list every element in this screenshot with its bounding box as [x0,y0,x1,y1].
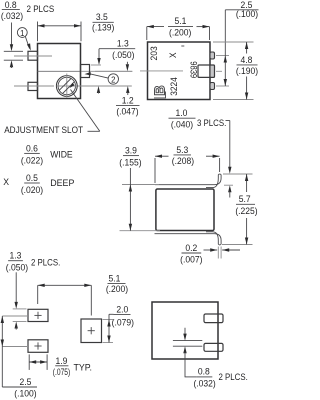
svg-text:5.7: 5.7 [239,194,251,205]
svg-text:(.020): (.020) [21,185,43,196]
svg-text:2 PLCS.: 2 PLCS. [219,372,248,383]
svg-text:(.047): (.047) [116,106,138,117]
svg-text:0.8: 0.8 [198,367,210,378]
svg-text:3.5: 3.5 [96,12,108,23]
svg-text:DEEP: DEEP [50,178,74,189]
svg-text:(.200): (.200) [169,27,191,38]
svg-text:9839: 9839 [188,61,198,78]
svg-text:X: X [168,52,178,58]
svg-text:5.1: 5.1 [175,16,187,27]
svg-text:(.075): (.075) [53,367,71,378]
svg-text:(.050): (.050) [6,262,28,273]
svg-text:5.3: 5.3 [176,145,188,156]
svg-text:(.155): (.155) [119,157,141,168]
svg-text:TYP.: TYP. [74,363,93,374]
svg-text:0.5: 0.5 [26,173,38,184]
svg-text:1.3: 1.3 [10,251,22,262]
svg-text:1: 1 [20,28,25,38]
svg-text:(.100): (.100) [236,9,258,20]
svg-text:(.050): (.050) [112,50,134,61]
svg-text:(.208): (.208) [172,156,194,167]
svg-text:WIDE: WIDE [50,149,72,160]
svg-text:(.007): (.007) [180,254,202,265]
svg-text:(.225): (.225) [235,206,257,217]
svg-text:ADJUSTMENT SLOT: ADJUSTMENT SLOT [4,125,83,136]
svg-text:1.0: 1.0 [176,108,188,119]
svg-text:1.3: 1.3 [117,39,129,50]
svg-text:(.022): (.022) [21,155,43,166]
svg-text:2: 2 [111,75,116,85]
svg-text:(.100): (.100) [14,388,36,399]
svg-text:0.2: 0.2 [185,243,197,254]
svg-text:3224: 3224 [169,77,179,96]
svg-text:(.079): (.079) [112,317,134,328]
svg-text:(.200): (.200) [106,284,128,295]
svg-text:(.190): (.190) [236,66,258,77]
svg-text:3.9: 3.9 [125,146,137,157]
svg-text:203: 203 [149,46,159,60]
svg-text:1.2: 1.2 [122,95,134,106]
svg-text:(.032): (.032) [1,11,23,22]
svg-text:1.9: 1.9 [56,356,68,367]
svg-text:3 PLCS.: 3 PLCS. [197,118,226,129]
svg-text:(.032): (.032) [193,379,215,390]
svg-text:0.6: 0.6 [26,143,38,154]
svg-text:2.5: 2.5 [19,377,31,388]
svg-text:(.040): (.040) [171,120,193,131]
svg-text:4.8: 4.8 [241,55,253,66]
svg-text:2 PLCS.: 2 PLCS. [31,257,60,268]
svg-text:2.0: 2.0 [116,305,128,316]
svg-text:X: X [3,177,9,188]
svg-text:2 PLCS: 2 PLCS [27,4,55,15]
svg-text:(.139): (.139) [92,23,114,34]
